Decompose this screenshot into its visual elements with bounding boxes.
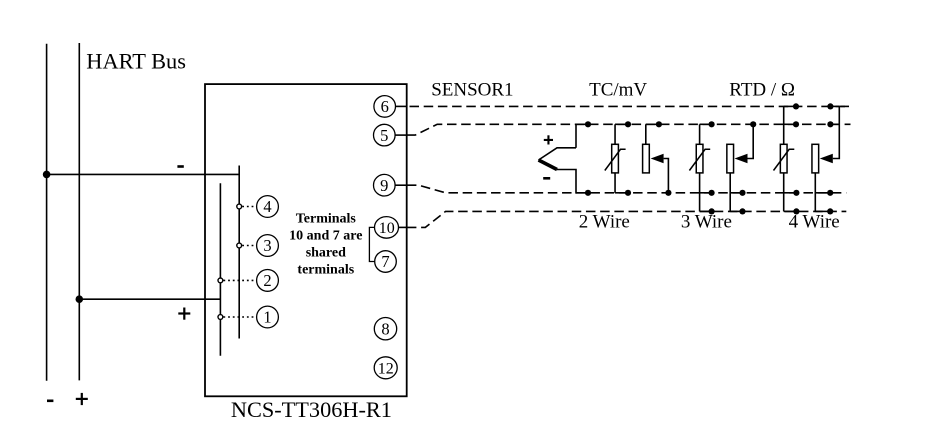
thermocouple TC bbox=[539, 121, 592, 196]
svg-text:9: 9 bbox=[380, 176, 388, 195]
svg-text:TC/mV: TC/mV bbox=[589, 80, 647, 101]
4-wire RTD R (left element) bbox=[774, 103, 800, 214]
terminal 8 circle bbox=[374, 318, 396, 340]
svg-text:1: 1 bbox=[263, 308, 271, 327]
terminal 10 circle bbox=[375, 217, 399, 239]
net SENSOR1 line 1 (from terminal 6) bbox=[410, 105, 850, 107]
svg-text:NCS-TT306H-R1: NCS-TT306H-R1 bbox=[231, 397, 392, 422]
TC polarity - mark bbox=[543, 177, 550, 180]
4-wire sense resistor with wiper arrow (right element) bbox=[812, 103, 839, 214]
terminal 1 circle bbox=[257, 306, 279, 328]
terminal contact 2 (open circle) bbox=[218, 278, 223, 283]
terminal 6 circle bbox=[374, 96, 396, 118]
wire: positive supply to terminal column B bbox=[79, 298, 220, 300]
wire: terminal 9 to case edge bbox=[395, 184, 407, 186]
wire: terminal 6 to case edge bbox=[396, 105, 407, 107]
svg-text:4 Wire: 4 Wire bbox=[789, 212, 840, 233]
transmitter body NCS-TT306H-R1 bbox=[205, 84, 407, 396]
dotted lead to terminal 1 bbox=[223, 316, 256, 318]
svg-text:RTD / Ω: RTD / Ω bbox=[729, 80, 795, 101]
terminal contact 4 (open circle) bbox=[237, 204, 242, 209]
terminal 12 circle bbox=[374, 357, 397, 379]
svg-text:shared: shared bbox=[306, 245, 346, 260]
bracket joining terminals 10 and 7 bbox=[369, 227, 374, 261]
label - at bottom of negative rail bbox=[47, 400, 53, 403]
2-wire sense resistor with wiper arrow (right element) bbox=[643, 121, 672, 196]
svg-text:5: 5 bbox=[380, 126, 388, 145]
terminal 5 circle bbox=[374, 124, 396, 146]
terminal 7 circle bbox=[375, 251, 397, 273]
note: shared terminals text bbox=[289, 211, 362, 277]
2-wire RTD R (left element) bbox=[605, 121, 631, 196]
svg-text:terminals: terminals bbox=[297, 263, 354, 278]
wire: internal vertical bus B (terminals 1,2) bbox=[219, 183, 221, 355]
3-wire RTD R (left element) bbox=[689, 121, 714, 214]
terminal contact 1 (open circle) bbox=[218, 315, 223, 320]
3-wire sense resistor with wiper arrow (right element) bbox=[727, 121, 756, 214]
wire: terminal 5 to case edge bbox=[395, 134, 407, 136]
wire: negative supply to terminal column A bbox=[47, 173, 240, 175]
label + on positive wire bbox=[178, 308, 190, 320]
svg-text:7: 7 bbox=[381, 252, 389, 271]
terminal 9 circle bbox=[374, 174, 396, 196]
svg-text:SENSOR1: SENSOR1 bbox=[431, 80, 513, 101]
junction dot on positive rail bbox=[76, 295, 84, 303]
TC polarity + mark bbox=[544, 135, 553, 144]
terminal contact 3 (open circle) bbox=[237, 243, 242, 248]
svg-text:HART Bus: HART Bus bbox=[86, 48, 186, 73]
net SENSOR1 line 3 (from terminal 9) bbox=[407, 185, 846, 193]
label - on negative wire bbox=[177, 165, 183, 168]
HART bus positive rail bbox=[78, 43, 80, 380]
svg-text:2 Wire: 2 Wire bbox=[579, 212, 630, 233]
svg-text:3 Wire: 3 Wire bbox=[681, 212, 732, 233]
svg-text:8: 8 bbox=[381, 319, 389, 338]
net SENSOR1 line 2 (from terminal 5) bbox=[407, 124, 851, 135]
wire: terminal 10 to case edge bbox=[399, 226, 407, 228]
terminal 3 circle bbox=[257, 235, 279, 257]
svg-text:4: 4 bbox=[263, 197, 271, 216]
svg-text:2: 2 bbox=[263, 271, 271, 290]
svg-text:10 and 7 are: 10 and 7 are bbox=[289, 229, 362, 244]
wire: internal vertical bus A (terminals 4,3) bbox=[238, 166, 240, 339]
svg-text:12: 12 bbox=[378, 361, 394, 378]
svg-text:10: 10 bbox=[379, 220, 395, 237]
label + at bottom of positive rail bbox=[76, 393, 88, 405]
net SENSOR1 line 4 (from terminal 10) bbox=[407, 211, 846, 227]
terminal 2 circle bbox=[257, 270, 279, 292]
svg-text:Terminals: Terminals bbox=[296, 211, 357, 226]
dotted lead to terminal 4 bbox=[242, 206, 256, 208]
svg-text:3: 3 bbox=[263, 236, 271, 255]
junction dot on negative rail bbox=[43, 171, 51, 179]
dotted lead to terminal 3 bbox=[242, 245, 256, 247]
svg-text:6: 6 bbox=[381, 97, 389, 116]
dotted lead to terminal 2 bbox=[223, 279, 256, 281]
HART bus negative rail bbox=[46, 44, 48, 381]
terminal 4 circle bbox=[257, 196, 279, 218]
